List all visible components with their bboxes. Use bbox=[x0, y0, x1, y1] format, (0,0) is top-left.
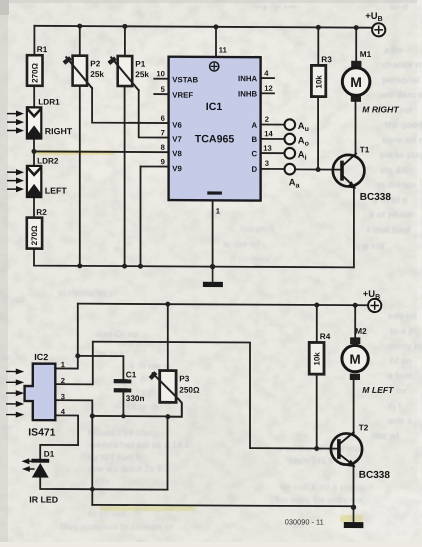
junction R3 top rail bbox=[316, 25, 321, 30]
wire IC1 pin 13 output C bbox=[261, 152, 285, 154]
junction R3 at T1 base bbox=[316, 167, 321, 172]
opto IC2 IS471 bbox=[7, 363, 56, 420]
junction IC1 pin1 ground rail bbox=[210, 264, 215, 269]
wire P2 top lead bbox=[79, 26, 81, 56]
wire M1 to T1 collector bbox=[355, 102, 357, 153]
supply symbol +UB bottom bbox=[368, 299, 381, 312]
op-amp window comparator IC1 TCA965 bbox=[169, 57, 261, 201]
wire R3 bottom lead bbox=[317, 97, 319, 170]
wire R3 top lead bbox=[317, 27, 319, 65]
capacitor C1 bbox=[114, 379, 132, 392]
LDR1 light arrows bbox=[8, 114, 17, 131]
yellow-green smudge under bottom rail bbox=[100, 506, 195, 511]
wire LDR2 to R2 bbox=[33, 198, 35, 217]
ground symbol bottom right bbox=[344, 507, 364, 528]
terminal circle Au bbox=[285, 119, 296, 130]
wire P1 top lead bbox=[124, 26, 126, 56]
junction V9 ground rail bbox=[138, 264, 143, 269]
wire C1 bottom lead bbox=[122, 392, 124, 416]
junction P2 ground rail bbox=[77, 263, 82, 268]
junction P1 ground rail bbox=[122, 264, 127, 269]
wire C1 top branch bbox=[78, 356, 124, 379]
wire R1 to LDR1 bbox=[33, 86, 35, 108]
IC1 internal minus bar bbox=[207, 191, 222, 194]
LED D1 bbox=[22, 458, 50, 477]
junction T2 emitter at ground rail bbox=[351, 504, 356, 509]
resistor R3 bbox=[311, 65, 325, 96]
wire pin3/pin4/C1/P3 junction line bbox=[92, 415, 168, 417]
resistor R4 bbox=[309, 342, 324, 374]
motor M1 bbox=[342, 61, 370, 102]
junction P1 top rail bbox=[122, 24, 127, 29]
resistor R2 bbox=[27, 218, 42, 249]
junction M2 top rail 2 bbox=[353, 303, 358, 308]
wire P1 wiper to pin V7 bbox=[139, 90, 169, 137]
junction pin3 riser on junction line bbox=[90, 413, 95, 418]
wire M1 top lead bbox=[355, 28, 357, 61]
wire M2 to T2 collector bbox=[353, 380, 355, 434]
wire pin V9 riser to ground rail bbox=[141, 166, 169, 266]
junction R4 top rail 2 bbox=[314, 302, 319, 307]
wire node V8 to pin V8 bbox=[34, 150, 169, 153]
potentiometer P2 bbox=[63, 56, 92, 89]
junction D1 line with pin3 riser bbox=[90, 487, 95, 492]
ground symbol under IC1 bbox=[203, 267, 223, 288]
IC2 light arrows bbox=[7, 371, 17, 414]
wire R2 to ground rail bbox=[34, 249, 354, 268]
wire P1 bottom lead bbox=[124, 86, 126, 266]
wire D1 cathode to bottom node bbox=[40, 477, 167, 489]
wire P2 wiper to pin V6 bbox=[92, 88, 169, 123]
junction C1 bottom on junction line bbox=[121, 414, 125, 418]
wire T1 emitter to ground rail bbox=[353, 188, 355, 268]
wire P3 bottom lead down bbox=[167, 417, 169, 490]
wire IC1 pin 1 to ground rail bbox=[212, 200, 214, 266]
IC1 internal plus terminal symbol bbox=[210, 62, 219, 71]
terminal circle Ai bbox=[285, 148, 296, 159]
junction P3 wiper node bbox=[165, 414, 170, 419]
wire M2 top lead bbox=[354, 305, 356, 337]
resistor R1 bbox=[27, 55, 43, 86]
wire R4 top lead bbox=[316, 305, 318, 343]
junction P2 top rail bbox=[77, 24, 82, 29]
wire IC2 pin 4 to D1 bbox=[40, 415, 78, 459]
wire IC2 pin 3 riser down bbox=[55, 400, 92, 505]
wire IC1 pin 2 output A bbox=[261, 123, 285, 125]
LDR2 light arrows bbox=[8, 172, 17, 189]
potentiometer P3 bbox=[149, 370, 182, 416]
transistor T2 BC338 bbox=[331, 432, 362, 467]
potentiometer P1 bbox=[108, 56, 139, 90]
motor M2 bbox=[342, 337, 368, 380]
junction C1 branch on pin1 riser bbox=[75, 353, 80, 358]
node V8 junction LDR1/LDR2 bbox=[32, 149, 37, 154]
wire bottom ground rail bbox=[92, 505, 353, 506]
yellow highlight on V8 wire bbox=[36, 150, 114, 154]
wire T2 emitter to ground rail bbox=[353, 465, 355, 507]
yellow smudge at bottom ground bbox=[340, 515, 363, 522]
junction P3 top rail 2 bbox=[165, 302, 170, 307]
wire IC2 pin 2 via riser to T2 base bbox=[55, 341, 337, 448]
wire IC1 pin 14 output B bbox=[261, 138, 285, 140]
wire P2 bottom lead bbox=[79, 86, 81, 266]
wire IC1 pin 4 INHA stub bbox=[261, 77, 274, 79]
terminal circle Aa bbox=[285, 164, 296, 175]
wire IC1 pin 10 stub bbox=[154, 78, 168, 80]
junction IC1 pin11 rail bbox=[214, 24, 219, 29]
wire P3 top lead bbox=[167, 304, 169, 370]
junction M1 top rail bbox=[354, 25, 359, 30]
wire R1 top lead bbox=[33, 26, 35, 55]
junction R4 at T2 base bbox=[314, 446, 319, 451]
wire IC1 pin 11 to +UB rail bbox=[215, 27, 217, 57]
terminal circle Ao bbox=[285, 134, 296, 145]
wire IC2 pin 1 riser to +UB rail 2 bbox=[55, 304, 78, 369]
wire +UB top rail bbox=[34, 26, 372, 28]
transistor T1 BC338 bbox=[333, 153, 365, 188]
wire IC1 pin 5 stub bbox=[154, 93, 168, 95]
wire +UB rail 2 bbox=[78, 304, 368, 306]
wire R4 bottom lead bbox=[316, 374, 318, 448]
wire IC1 pin 12 INHB stub bbox=[261, 92, 274, 94]
wire LDR1 to node V8 to LDR2 bbox=[33, 139, 35, 166]
wire IC1 pin 3 output D to T1 base bbox=[261, 168, 341, 171]
D1 emission arrows bbox=[27, 461, 34, 469]
supply symbol +UB top bbox=[372, 23, 385, 36]
LDR LDR2 bbox=[8, 166, 42, 197]
LDR LDR1 bbox=[8, 107, 42, 138]
